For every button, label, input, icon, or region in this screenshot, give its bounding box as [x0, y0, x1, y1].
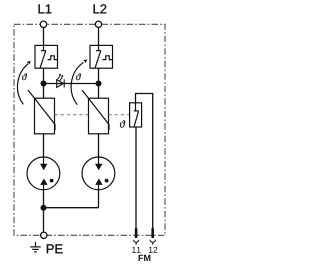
wire L2 (thermal disconnector to junction) — [98, 68, 100, 83]
label L2 — [94, 4, 107, 13]
wire FM (box bottom to terminal 11) — [135, 127, 137, 229]
wire L1 (thermal disconnector to junction) — [43, 68, 45, 83]
enclosure dashed border — [14, 24, 165, 235]
label L1 — [39, 4, 52, 13]
junction node PE — [41, 205, 47, 211]
terminal bar 12 — [151, 228, 154, 238]
spark gap G2 (gas discharge tube) — [82, 157, 115, 190]
mechanical linkage dashed (varistor to FM contact) — [109, 114, 130, 116]
label 12 — [149, 247, 157, 253]
label PE — [47, 244, 63, 253]
label 11 — [132, 247, 140, 253]
wire (PE junction to PE terminal) — [43, 208, 45, 233]
thermal trip arc L2 — [71, 62, 83, 105]
socket symbol 12 — [150, 240, 155, 245]
wire L2 vertical (terminal to thermal disconnector) — [98, 28, 100, 46]
thermal disconnector F1 (box with switch contact) — [35, 45, 58, 68]
wire L2 (junction to varistor) — [98, 84, 100, 99]
wire L1 vertical (terminal to thermal disconnector) — [43, 28, 45, 46]
theta label FM — [120, 120, 125, 127]
thermal trip arc L1 — [17, 64, 28, 105]
terminal L1 — [40, 21, 46, 27]
wire L1 (spark gap to PE junction) — [43, 189, 45, 208]
wire L1 (junction to varistor) — [43, 84, 45, 99]
theta label L2 — [76, 73, 81, 80]
wire L1 (varistor to spark gap) — [43, 134, 45, 158]
wire LED link horizontal — [44, 83, 99, 85]
ground symbol — [30, 242, 40, 252]
spark gap G1 (gas discharge tube) — [27, 157, 60, 190]
LED indicator — [57, 79, 64, 87]
FM remote contact box — [130, 103, 142, 127]
wire L2 (varistor to spark gap) — [98, 134, 100, 158]
varistor MOV2 — [82, 90, 109, 134]
terminal L2 — [95, 21, 101, 27]
LED light arrowheads — [59, 74, 61, 77]
terminal PE — [41, 232, 47, 238]
socket symbol 11 — [134, 240, 139, 245]
label FM — [139, 255, 151, 261]
wire FM loop (box top up and over to terminal 12) — [136, 94, 153, 229]
theta label L1 — [22, 73, 27, 80]
junction node L1 — [41, 81, 47, 87]
mechanical linkage dashed (varistor to varistor) — [55, 114, 89, 116]
wire L2 (spark gap down) — [98, 189, 100, 208]
junction node L2 — [96, 81, 102, 87]
thermal disconnector F2 (box with switch contact) — [90, 45, 113, 68]
varistor MOV1 — [28, 90, 55, 134]
terminal bar 11 — [135, 228, 138, 238]
wire bottom horizontal (L2 branch to PE junction) — [44, 207, 99, 209]
